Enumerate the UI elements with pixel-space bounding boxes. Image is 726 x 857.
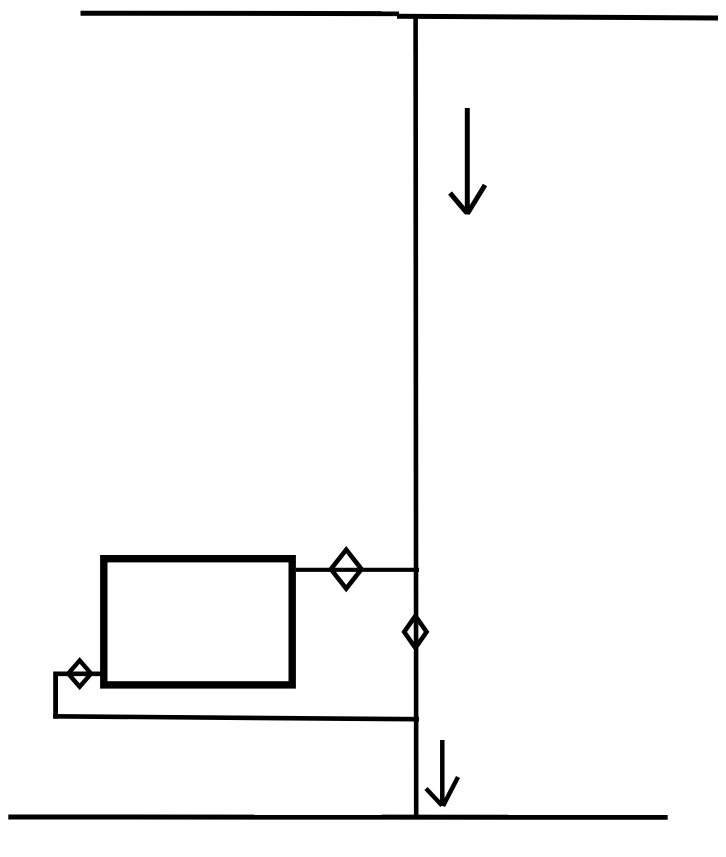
- wire vertical riser main: [413, 14, 418, 816]
- wire return left drop: [53, 672, 58, 719]
- radiator (rectangle): [104, 559, 292, 685]
- valve V2 (diamond on riser): [404, 616, 426, 648]
- wire radiator return horizontal through valve V3: [56, 671, 104, 676]
- flow arrow upper (down): [450, 108, 485, 215]
- wire bottom return main: [8, 815, 667, 820]
- wire top supply main right stroke: [397, 16, 718, 18]
- valve V1 (diamond on outlet wire): [331, 550, 362, 589]
- valve V3 (diamond on return wire): [68, 660, 91, 686]
- wire top supply main left stroke: [81, 11, 400, 16]
- wire return bottom run to riser: [53, 716, 419, 719]
- wire radiator outlet to riser: [296, 568, 419, 572]
- flow arrow lower (down): [426, 740, 458, 806]
